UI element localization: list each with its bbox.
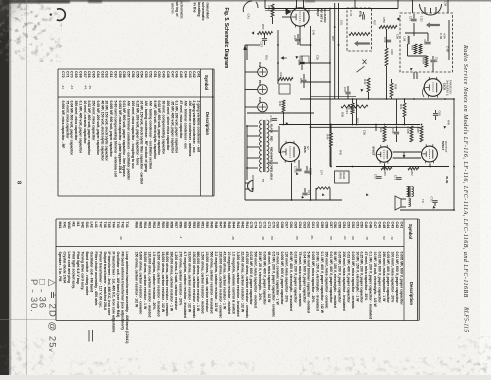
svg-text:M41: M41 [58,222,62,229]
resistor R36 [385,48,388,66]
svg-text:C68: C68 [280,222,284,229]
svg-text:-52: -52 [382,236,386,241]
svg-text:16 MF, 150 volt, electrolytic: 16 MF, 150 volt, electrolytic filter cap… [140,101,144,184]
svg-text:1,500 ohms, carbon resistor -: 1,500 ohms, carbon resistor - molded [201,252,205,314]
svg-text:R66: R66 [383,171,387,177]
svg-text:0.05 MF, 200 V, paper capacito: 0.05 MF, 200 V, paper capacitor [338,252,342,304]
svg-text:R45: R45 [339,150,343,155]
svg-text:5-80 mmf trimmer capacitor - m: 5-80 mmf trimmer capacitor - molded [307,252,311,313]
svg-text:C-58: C-58 [439,33,443,40]
extra top edge wire stubs [354,0,356,9]
svg-text:350 mmf, mica capacitor: 350 mmf, mica capacitor [74,101,78,142]
bottom right rail [400,209,454,211]
svg-text:-60: -60 [351,236,355,241]
svg-text:P ˗ 30.: P ˗ 30. [29,279,40,313]
svg-text:68 mmf, mica capacitor - 1/2 W: 68 mmf, mica capacitor - 1/2 W [267,252,271,304]
svg-text:C66: C66 [289,222,293,229]
table 2: resistor/misc parts list (rotated) [56,219,419,343]
svg-text:-58: -58 [329,236,333,241]
capacitor C73G [296,169,301,171]
svg-text:T46: T46 [103,222,107,228]
svg-text:2 gang variable condenser - an: 2 gang variable condenser - ant [197,101,201,153]
svg-text:Symbol: Symbol [204,75,209,90]
svg-text:C50: C50 [157,71,161,78]
scan edge: top dark band [0,0,491,2]
svg-text:100,000 ohms, carbon resistor: 100,000 ohms, carbon resistor - ceramic [192,252,196,319]
svg-text:C64: C64 [435,57,439,63]
svg-text:T8: T8 [261,179,265,183]
svg-text:R56: R56 [261,24,265,30]
svg-text:C69: C69 [74,71,78,78]
small box label mid [300,56,309,63]
tube V6 output 6V6GT left [376,147,391,162]
tuning cap arrow [354,41,370,47]
svg-text:0.01 MF, 400 V, paper capacito: 0.01 MF, 400 V, paper capacitor [329,252,333,304]
svg-text:AM - tuning condenser - oscill: AM - tuning condenser - oscillator secti… [148,101,152,170]
scan edge: left black bar [0,0,9,375]
svg-text:0.1 MF, 400 V, paper capacitor: 0.1 MF, 400 V, paper capacitor - 1/2 W [320,252,324,314]
svg-text:C45: C45 [382,222,386,229]
resistor R60A [425,56,428,67]
power transformer T8 [260,120,262,172]
svg-text:R66: R66 [134,222,138,229]
svg-text:C71: C71 [267,222,271,229]
svg-text:C42: C42 [395,222,399,229]
svg-text:OUTPUT: OUTPUT [444,141,448,153]
svg-text:C72: C72 [263,222,267,229]
svg-text:390,000 ohms, carbon resistor: 390,000 ohms, carbon resistor - 1 W [170,252,174,312]
svg-text:C70G: C70G [269,116,273,123]
svg-text:Speaker - 5 in. PM: Speaker - 5 in. PM [58,252,62,282]
svg-text:R55: R55 [183,222,187,229]
svg-text:0.006 MF, mica capacitor - RF: 0.006 MF, mica capacitor - RF [61,101,65,149]
svg-text:C58: C58 [324,222,328,229]
svg-text:-48: -48 [261,236,265,241]
AC plug S7 [245,181,253,192]
svg-text:BLACK: BLACK [270,124,274,133]
svg-text:R53: R53 [192,222,196,229]
svg-text:10 megohm, carbon resistor - m: 10 megohm, carbon resistor - molded [227,252,231,314]
svg-text:-41: -41 [61,85,65,90]
svg-text:68-: 68- [310,236,314,240]
svg-text:C44: C44 [183,71,187,78]
svg-text:0.008 MF, 400 V, paper capacit: 0.008 MF, 400 V, paper capacitor [263,252,267,306]
svg-text:R42: R42 [363,79,367,85]
svg-text:AM - trimmer condenser - anten: AM - trimmer condenser - antenna [188,101,192,157]
svg-text:C54: C54 [140,71,144,78]
speaker field box [335,171,350,183]
stray marks bottom left [88,330,90,342]
svg-text:C43: C43 [391,222,395,229]
capacitor C62 [425,42,430,44]
svg-text:-72: -72 [390,236,394,241]
resistor R44 [278,78,293,81]
svg-text:W41: W41 [67,222,71,229]
svg-text:C41: C41 [247,14,251,20]
svg-text:C69: C69 [276,222,280,229]
svg-text:0.05 MF, 200 volt, paper capac: 0.05 MF, 200 volt, paper capacitor [96,101,100,156]
resistor R52 [271,4,274,17]
capacitor C71 [396,178,401,180]
svg-text:C52: C52 [351,222,355,229]
junction dots [246,8,455,201]
svg-text:schematic: schematic [180,1,184,19]
svg-text:R42: R42 [240,222,244,229]
svg-text:R47: R47 [218,222,222,229]
svg-text:30 MF, 150 V, electrolytic - 1: 30 MF, 150 V, electrolytic - 1 W [355,252,359,303]
tube V2 partial at top edge [420,4,442,15]
coupling wires between tubes [393,151,421,153]
svg-text:75 mmf, mica capacitor - ceram: 75 mmf, mica capacitor - ceramic [298,252,302,307]
resistor R40 above T8 [282,100,285,112]
svg-text:C61: C61 [340,20,344,25]
svg-text:0.02 MF, 600 V, paper capacito: 0.02 MF, 600 V, paper capacitor [377,252,381,304]
svg-text:Filter choke assembly - 450 oh: Filter choke assembly - 450 ohm [94,252,98,306]
table 1: capacitor parts list (rotated) [58,69,214,196]
svg-text:15 mmf, ceramic capacitor - 1: 15 mmf, ceramic capacitor - 1 W [276,252,280,306]
svg-text:R49: R49 [209,222,213,229]
svg-text:R44: R44 [232,222,236,229]
svg-text:18,000 ohms, carbon resistor -: 18,000 ohms, carbon resistor - 1/2 W [161,252,165,313]
svg-text:15,000 ohms, 1 watt, carbon re: 15,000 ohms, 1 watt, carbon resistor [205,252,209,313]
up arrow on left rail [243,45,247,50]
svg-text:C63: C63 [383,37,387,43]
svg-text:680,000 ohms, carbon resistor: 680,000 ohms, carbon resistor - 1 W [196,252,200,312]
svg-text:L42: L42 [89,222,93,228]
long vertical wires center [310,26,312,200]
resistor R60 [419,44,422,54]
svg-text:C60: C60 [114,71,118,78]
svg-text:47,000 ohms, carbon resistor -: 47,000 ohms, carbon resistor - 1 W [223,252,227,310]
svg-text:wiring of: wiring of [175,1,179,18]
svg-text:0.5 MF, 200 V, paper capacitor: 0.5 MF, 200 V, paper capacitor - ceramic [271,252,275,318]
svg-text:S42: S42 [81,222,85,228]
svg-text:25 MF, 25 V, electrolytic - 20: 25 MF, 25 V, electrolytic - 20% [258,252,262,302]
capacitor C69 [433,114,438,116]
svg-text:C73: C73 [258,222,262,229]
extra grounds [321,193,325,197]
svg-text:0.25 MF, 200 V, paper capacito: 0.25 MF, 200 V, paper capacitor [360,252,364,304]
svg-text:0.02 MF, 600 volt, paper capac: 0.02 MF, 600 volt, paper capacitor [157,101,161,156]
svg-text:C71: C71 [394,175,398,181]
svg-text:6V6GT: 6V6GT [372,147,376,156]
svg-text:C67: C67 [285,222,289,229]
svg-text:-42: -42 [119,236,123,241]
svg-text:C66: C66 [299,78,303,84]
output transformer T9 [407,187,409,197]
grid cap lead 6SQ7 [286,8,291,15]
svg-text:C48: C48 [312,30,316,35]
svg-text:C74: C74 [254,222,258,229]
svg-text:P42: P42 [258,62,262,68]
svg-text:0.015 MF, 600 V, paper capacit: 0.015 MF, 600 V, paper capacitor [249,252,253,306]
tube V7 output 6V6GT right [422,146,438,162]
resistor R56 [258,32,273,35]
svg-text:AM - band trimmer condenser -: AM - band trimmer condenser - oscillator… [127,101,131,181]
svg-text:C72: C72 [61,71,65,78]
svg-text:120,000 ohms, carbon resistor: 120,000 ohms, carbon resistor - molded [148,252,152,318]
svg-text:Description: Description [205,112,210,135]
svg-text:C43: C43 [188,71,192,78]
svg-text:56,000 ohms, carbon resistor -: 56,000 ohms, carbon resistor - ceramic [165,252,169,317]
svg-text:C63: C63 [302,222,306,229]
capacitor C67 [347,86,349,91]
capacitor C70 [376,177,381,179]
svg-text:250 mmf, mica capacitor: 250 mmf, mica capacitor [92,101,96,142]
svg-text:T9: T9 [421,199,425,203]
svg-text:1.5 megohm, carbon resistor -: 1.5 megohm, carbon resistor - 20% [152,252,156,311]
svg-text:8 MF, 450 volt, electrolytic c: 8 MF, 450 volt, electrolytic capacitor [153,101,157,160]
resistor R46 [330,133,333,147]
svg-text:C61: C61 [109,71,113,78]
svg-text:R38: R38 [394,84,398,90]
svg-text:6SQ7: 6SQ7 [316,9,320,17]
svg-text:R63: R63 [148,222,152,229]
svg-text:T42: T42 [121,222,125,228]
svg-text:R36: R36 [390,50,394,56]
svg-text:L58: L58 [403,37,407,42]
svg-text:YEL&BLK: YEL&BLK [270,168,274,180]
svg-text:0.04 MF, 600 V, paper capacito: 0.04 MF, 600 V, paper capacitor [302,252,306,304]
right rail X454 [453,99,455,210]
svg-text:C73G: C73G [294,166,298,173]
svg-text:R63: R63 [347,104,351,110]
svg-text:C68: C68 [79,71,83,78]
svg-text:C60: C60 [316,222,320,229]
capacitor C64 [432,56,434,59]
capacitor C66 [303,74,305,79]
svg-text:0.01 MF, 600 volt, paper capac: 0.01 MF, 600 volt, paper capacitor - lin… [122,101,126,177]
svg-text:39,000 ohms, carbon resistor -: 39,000 ohms, carbon resistor - 1 W [143,252,147,310]
svg-text:Description: Description [409,282,414,305]
svg-text:1.0 megohm, volume control & s: 1.0 megohm, volume control & switch [232,252,236,315]
svg-text:L41: L41 [94,222,98,228]
svg-text:C68: C68 [391,128,395,134]
svg-text:R37: R37 [373,20,377,25]
parallel B+ rail segment [311,96,357,98]
svg-text:8: 8 [16,181,23,184]
svg-text:GT: GT [306,146,310,150]
svg-text:-55: -55 [295,236,299,241]
svg-text:C58: C58 [444,1,448,7]
svg-text:R43: R43 [345,109,349,115]
svg-text:3,300 ohms, carbon resistor -: 3,300 ohms, carbon resistor - insulated [236,252,240,317]
svg-text:C53: C53 [347,222,351,229]
rail Y124.5 [300,124,420,126]
svg-text:0.005 MF, mica capacitor - 20%: 0.005 MF, mica capacitor - 20% [311,252,315,304]
loop antenna [243,1,258,12]
svg-text:C55: C55 [338,222,342,229]
svg-text:1,200 ohms, 2 watt, carbon res: 1,200 ohms, 2 watt, carbon resistor [174,252,178,311]
svg-text:C73: C73 [307,190,311,196]
svg-text:150 ohms, carbon resistor - 1/: 150 ohms, carbon resistor - 1/2 W [134,252,138,309]
svg-text:Crystal diode 1N34: Crystal diode 1N34 [63,252,67,284]
svg-text:R45: R45 [227,222,231,229]
resistor R65 [420,126,423,142]
svg-text:200 mmf, mica capacitor - insu: 200 mmf, mica capacitor - insulated [342,252,346,311]
svg-text:0.1 MF, 200 V, paper capacitor: 0.1 MF, 200 V, paper capacitor - insulat… [369,252,373,320]
svg-text:P44: P44 [258,97,262,103]
bottom-left corner + bottom edge speckle [0,338,55,375]
svg-text:R39: R39 [341,112,345,117]
svg-text:Line cord and plug: Line cord and plug [67,252,71,283]
svg-text:C72: C72 [430,197,434,203]
faint fold line bottom-left [0,319,56,321]
svg-text:R60A: R60A [422,57,426,64]
resistor R50 [379,26,397,29]
more dots [283,124,455,211]
svg-text:R46: R46 [223,222,227,229]
resistor R38 [390,83,393,97]
svg-text:C62: C62 [307,222,311,229]
svg-text:C50: C50 [307,8,311,13]
svg-text:R52: R52 [196,222,200,229]
svg-text:C67: C67 [83,71,87,78]
extra wires mid [247,112,314,114]
parallel top rail [265,9,330,11]
C-47G cap near T8 top [272,119,277,121]
capacitor C65 [301,56,303,61]
svg-text:In the: In the [193,3,197,13]
svg-text:Power transformer - 117 V, 60: Power transformer - 117 V, 60 cyc. [98,252,102,309]
speaker [395,196,401,210]
dashed box FM section [400,13,453,72]
svg-text:T45: T45 [107,222,111,228]
svg-text:47 mmf, mica capacitor: 47 mmf, mica capacitor [179,101,183,140]
tuning cap arrow 2 [426,22,440,28]
svg-text:Symbol: Symbol [408,224,413,239]
svg-text:R41: R41 [245,222,249,229]
svg-text:20 MF, 150 V, electrolytic - i: 20 MF, 150 V, electrolytic - insulated [316,252,320,311]
svg-text:C44: C44 [386,222,390,229]
svg-text:-78: -78 [365,236,369,241]
svg-text:I42: I42 [72,222,76,227]
svg-text:C69: C69 [438,111,442,117]
svg-text:BLUE: BLUE [445,177,448,184]
svg-text:Pilot light socket assy.: Pilot light socket assy. [72,252,76,290]
svg-text:S41: S41 [85,222,89,228]
svg-text:10 mmf, ceramic capacitor: 10 mmf, ceramic capacitor [83,101,87,145]
svg-text:C71: C71 [65,71,69,78]
volume control wiper arrows [277,30,279,84]
svg-text:locating: locating [197,2,201,17]
svg-text:T44: T44 [112,222,116,228]
svg-text:1st AUDIO: 1st AUDIO [323,9,327,24]
svg-text:X41: X41 [63,222,67,228]
resistor R62 [408,167,419,170]
svg-text:-45: -45 [231,236,235,241]
svg-text:17J2: 17J2 [420,16,424,22]
svg-text:PHASE INV.: PHASE INV. [449,80,453,95]
svg-text:C-60: C-60 [446,46,450,52]
svg-text:50 MF, 150 V, electrolytic - m: 50 MF, 150 V, electrolytic - molded [333,252,337,308]
page fold line left [26,0,28,375]
tube V5 2nd audio & phase inv [424,79,442,97]
svg-text:C73B: C73B [309,168,313,175]
svg-text:C53: C53 [260,42,264,48]
svg-text:-61: -61 [343,236,347,241]
svg-text:75 mmf, mica capacitor: 75 mmf, mica capacitor [65,101,69,140]
svg-text:C-49: C-49 [358,11,362,18]
svg-text:C50: C50 [360,222,364,229]
capacitor C73B [304,171,309,173]
svg-text:C59: C59 [320,222,324,229]
svg-text:R64: R64 [379,127,383,133]
svg-text:0.01 MF, 600 V, paper capacito: 0.01 MF, 600 V, paper capacitor [395,252,399,304]
heater wiring under rectifier [316,187,330,189]
svg-text:6,800 ohms, carbon resistor -: 6,800 ohms, carbon resistor - ceramic [139,252,143,315]
schematic bottom rail [245,199,342,201]
svg-text:0.02 MF, 200 V, paper capacito: 0.02 MF, 200 V, paper capacitor [293,252,297,304]
svg-text:R61: R61 [156,222,160,229]
capacitor C72 [432,201,437,203]
svg-text:C62: C62 [423,40,427,46]
svg-text:R61: R61 [399,104,403,110]
capacitor C72B [410,126,413,142]
svg-text:C64: C64 [96,71,100,78]
svg-text:-45: -45 [88,85,92,90]
svg-text:R43: R43 [236,222,240,229]
svg-text:R44: R44 [279,73,283,79]
svg-text:C59: C59 [396,34,400,39]
svg-text:10 MF, 25 volt, electrolytic -: 10 MF, 25 volt, electrolytic - 1/2 W [373,252,377,308]
svg-text:I41: I41 [76,222,80,227]
svg-text:C70: C70 [271,222,275,229]
svg-text:IF transformer - 2nd, 460 KC,: IF transformer - 2nd, 460 KC, iron core [107,252,111,316]
svg-text:0.02 MF, 400 V, paper capacito: 0.02 MF, 400 V, paper capacitor [347,252,351,304]
svg-text:C55: C55 [135,71,139,78]
svg-text:350 mmf, mica capacitor - cera: 350 mmf, mica capacitor - ceramic [324,252,328,309]
top interconnect wires [265,8,330,10]
tube V1 6SQ7 AM det & 1st audio [291,8,309,26]
x mark [357,60,367,73]
capacitor C47 [297,34,299,38]
svg-text:C67: C67 [343,87,347,93]
jack P44 [258,102,268,112]
svg-text:C45: C45 [179,71,183,78]
svg-text:RED: RED [270,136,274,142]
svg-text:C74: C74 [320,170,324,175]
svg-text:R56: R56 [179,222,183,229]
svg-text:0.003 MF, mica capacitor - cer: 0.003 MF, mica capacitor - ceramic [351,252,355,309]
svg-text:R59: R59 [165,222,169,229]
svg-text:C47: C47 [293,36,297,42]
svg-text:560 ohms, carbon resistor - in: 560 ohms, carbon resistor - insulated [209,252,213,314]
svg-text:R57: R57 [331,36,335,41]
svg-text:4.5A: 4.5A [442,33,446,39]
svg-text:C49: C49 [364,222,368,229]
svg-text:C41: C41 [400,222,404,229]
svg-text:C41: C41 [197,71,201,78]
capacitor C-49 [363,14,365,19]
svg-text:-4: -4 [179,236,183,239]
svg-text:C70: C70 [374,174,378,180]
schematic left border wire [244,45,246,200]
capacitor C53 [262,39,267,41]
svg-text:R62: R62 [410,171,414,177]
svg-text:Loop antenna transformer assem: Loop antenna transformer assembly - AM b… [125,252,129,344]
svg-text:40 MF, 450 V, electrolytic - i: 40 MF, 450 V, electrolytic - insulated [289,252,293,311]
svg-text:4.7 megohm, carbon resistor -: 4.7 megohm, carbon resistor - insulated [183,252,187,318]
svg-text:R62: R62 [152,222,156,229]
svg-text:C48: C48 [369,222,373,229]
svg-text:C57: C57 [329,222,333,229]
svg-text:0.1 MF, 400 volt, paper capaci: 0.1 MF, 400 volt, paper capacitor [79,101,83,154]
svg-text:C56: C56 [363,130,367,135]
svg-text:RED&WH: RED&WH [270,147,274,159]
svg-text:C56: C56 [333,222,337,229]
svg-text:C57: C57 [409,16,413,22]
